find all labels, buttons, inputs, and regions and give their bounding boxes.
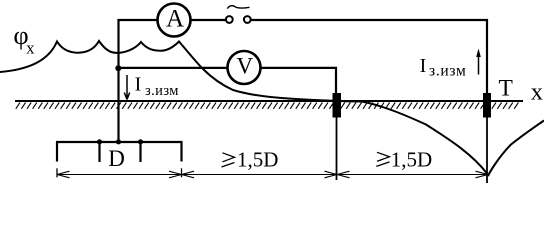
dimension arrowhead pointing right at probe line bbox=[325, 171, 338, 178]
wire: current electrode witness line down to dimension line bbox=[486, 117, 488, 183]
current electrode T bbox=[483, 93, 491, 118]
current arrow down (left) bbox=[124, 75, 129, 100]
wire: ammeter to switch bbox=[191, 19, 226, 21]
label ≥1,5D (left span) : hand-drawn slanted >= sign bbox=[222, 153, 235, 167]
dimension arrowhead pointing left at first tick bbox=[182, 171, 195, 178]
voltmeter V bbox=[228, 51, 261, 84]
dimension arrowhead left pointing left bbox=[57, 171, 70, 178]
dimension tick between D and 1,5D bbox=[181, 168, 183, 177]
grounding grid rod 2 bbox=[98, 142, 100, 162]
svg-text:x: x bbox=[531, 79, 543, 106]
svg-text:з.изм: з.изм bbox=[429, 63, 467, 80]
svg-text:T: T bbox=[499, 76, 513, 102]
label ≥1,5D (right span) : hand-drawn slanted >= sign bbox=[376, 152, 389, 166]
dimension arrowhead right end pointing right bbox=[476, 171, 489, 178]
grounding grid rod 4 bbox=[180, 142, 182, 162]
ground surface line with axis bbox=[15, 100, 523, 102]
switch S contact left bbox=[226, 16, 233, 23]
grounding grid rod 3 bbox=[139, 142, 141, 162]
wire: top horizontal, corner to ammeter bbox=[118, 19, 158, 21]
svg-text:з.изм: з.изм bbox=[145, 83, 179, 99]
wire: top-left vertical from ammeter branch down to grounding grid bus bbox=[117, 19, 119, 142]
wire: switch to top-right corner and down to current electrode T bbox=[251, 20, 487, 94]
svg-text:I: I bbox=[135, 74, 142, 96]
dimension arrowhead pointing right at first tick bbox=[169, 171, 182, 178]
potential probe electrode (middle) bbox=[333, 93, 342, 118]
AC tilde mark above switch bbox=[227, 6, 249, 9]
svg-text:D: D bbox=[108, 146, 125, 171]
svg-text:x: x bbox=[26, 39, 35, 58]
switch S contact right bbox=[244, 16, 251, 23]
dimension arrowhead pointing left at probe line bbox=[337, 171, 350, 178]
node: junction of voltmeter branch on left vertical wire bbox=[115, 65, 121, 71]
svg-text:V: V bbox=[236, 53, 253, 78]
svg-text:I: I bbox=[420, 55, 427, 77]
svg-text:1,5D: 1,5D bbox=[237, 148, 278, 172]
current arrow up (right) bbox=[478, 53, 480, 75]
svg-text:1,5D: 1,5D bbox=[391, 148, 432, 172]
wire: probe electrode witness line down to dimension line bbox=[336, 117, 338, 180]
wire: junction to voltmeter bbox=[119, 67, 228, 69]
ground hatching bbox=[16, 102, 519, 108]
node: wire-to-bus junction dot bbox=[116, 139, 121, 144]
node: bus dot right bbox=[138, 139, 143, 144]
wire: voltmeter to potential probe electrode bbox=[261, 68, 337, 94]
svg-text:A: A bbox=[166, 6, 184, 33]
potential curve φ(x) bbox=[0, 41, 544, 175]
ammeter A bbox=[158, 4, 191, 37]
dimension tick at left end bbox=[56, 168, 58, 177]
node: bus dot left bbox=[97, 139, 102, 144]
grounding grid rod 1 bbox=[56, 142, 58, 162]
dimension line bbox=[57, 174, 488, 176]
grounding grid bus bar bbox=[56, 141, 183, 143]
